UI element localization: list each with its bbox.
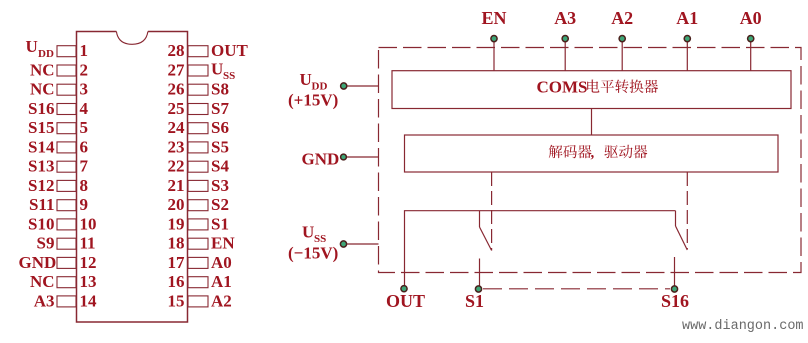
svg-text:A3: A3 bbox=[554, 8, 576, 28]
svg-text:(+15V): (+15V) bbox=[288, 91, 338, 110]
pin 16 box bbox=[188, 277, 208, 288]
svg-text:A0: A0 bbox=[740, 8, 762, 28]
svg-text:COMS: COMS bbox=[537, 78, 588, 97]
svg-text:12: 12 bbox=[80, 253, 97, 272]
pin 20 box bbox=[188, 200, 208, 211]
svg-text:15: 15 bbox=[168, 291, 185, 310]
wire EN input stub bbox=[493, 40, 495, 71]
svg-text:U: U bbox=[300, 70, 312, 89]
svg-text:19: 19 bbox=[168, 214, 185, 233]
svg-text:S10: S10 bbox=[28, 214, 54, 233]
svg-text:11: 11 bbox=[80, 234, 96, 253]
node EN terminal dot bbox=[491, 36, 497, 42]
pin 11 box bbox=[57, 238, 76, 249]
pin 9 box bbox=[57, 200, 76, 211]
svg-text:S1: S1 bbox=[465, 291, 484, 311]
wire GND lead bbox=[344, 156, 379, 158]
svg-text:27: 27 bbox=[168, 60, 186, 79]
wire S16 control (dashed) bbox=[686, 172, 688, 249]
svg-text:16: 16 bbox=[168, 272, 185, 291]
svg-text:S9: S9 bbox=[37, 234, 55, 253]
svg-text:9: 9 bbox=[80, 195, 89, 214]
node S16 terminal dot bbox=[671, 286, 677, 292]
svg-text:S3: S3 bbox=[211, 176, 229, 195]
pin 7 box bbox=[57, 161, 76, 172]
pin 2 box bbox=[57, 65, 76, 76]
node USS terminal dot bbox=[340, 241, 346, 247]
pin 10 box bbox=[57, 219, 76, 230]
pin 8 box bbox=[57, 180, 76, 191]
svg-text:14: 14 bbox=[80, 291, 98, 310]
wire UDD lead bbox=[344, 85, 379, 87]
svg-text:S5: S5 bbox=[211, 137, 229, 156]
pin 6 box bbox=[57, 142, 76, 153]
node UDD terminal dot bbox=[341, 83, 347, 89]
chip boundary dashed box bbox=[379, 48, 802, 273]
svg-text:S16: S16 bbox=[28, 99, 54, 118]
pin 14 box bbox=[57, 296, 76, 307]
svg-text:OUT: OUT bbox=[211, 41, 249, 60]
svg-text:24: 24 bbox=[168, 118, 186, 137]
pin 26 box bbox=[188, 84, 208, 95]
pin 28 box bbox=[188, 46, 208, 57]
svg-text:GND: GND bbox=[302, 150, 340, 169]
svg-text:A1: A1 bbox=[211, 272, 232, 291]
svg-text:A2: A2 bbox=[611, 8, 633, 28]
switch S16 arm bbox=[676, 226, 688, 250]
switch S1 contact wire bbox=[479, 259, 481, 289]
svg-text:,: , bbox=[591, 145, 595, 161]
svg-text:S16: S16 bbox=[661, 291, 689, 311]
label 解码器 bbox=[549, 145, 592, 159]
wire S1 to S16 ellipsis (dashed) bbox=[483, 288, 670, 290]
pin 25 box bbox=[188, 104, 208, 115]
svg-text:S1: S1 bbox=[211, 214, 229, 233]
pin 17 box bbox=[188, 257, 208, 268]
node A3 terminal dot bbox=[562, 36, 568, 42]
label 电平转换器 bbox=[587, 80, 658, 94]
node S1 terminal dot bbox=[475, 286, 481, 292]
svg-text:18: 18 bbox=[168, 234, 185, 253]
svg-text:25: 25 bbox=[168, 99, 185, 118]
svg-text:S13: S13 bbox=[28, 157, 54, 176]
svg-text:S2: S2 bbox=[211, 195, 229, 214]
svg-text:3: 3 bbox=[80, 80, 89, 99]
wire S1 control (dashed) bbox=[491, 172, 493, 251]
pin 24 box bbox=[188, 123, 208, 134]
svg-text:OUT: OUT bbox=[386, 291, 425, 311]
svg-text:S11: S11 bbox=[29, 195, 55, 214]
svg-text:U: U bbox=[26, 37, 38, 56]
wire A2 input stub bbox=[621, 40, 623, 71]
svg-text:21: 21 bbox=[168, 176, 185, 195]
pin 12 box bbox=[57, 257, 76, 268]
svg-text:13: 13 bbox=[80, 272, 97, 291]
svg-text:U: U bbox=[302, 223, 314, 242]
switch S16 contact wire bbox=[674, 257, 676, 288]
IC U1 DIP-28 body bbox=[77, 32, 188, 323]
svg-text:10: 10 bbox=[80, 214, 97, 233]
wire A3 input stub bbox=[564, 40, 566, 71]
svg-text:S7: S7 bbox=[211, 99, 229, 118]
svg-text:A1: A1 bbox=[676, 8, 698, 28]
wire A0 input stub bbox=[750, 40, 752, 71]
svg-text:S8: S8 bbox=[211, 80, 229, 99]
pin 15 box bbox=[188, 296, 208, 307]
svg-text:EN: EN bbox=[481, 8, 506, 28]
svg-text:17: 17 bbox=[168, 253, 186, 272]
pin 1 box bbox=[57, 46, 76, 57]
svg-text:NC: NC bbox=[30, 80, 55, 99]
svg-text:www.diangon.com: www.diangon.com bbox=[682, 319, 804, 334]
pin 13 box bbox=[57, 277, 76, 288]
IC U1 pin-1 index notch bbox=[116, 32, 147, 45]
node OUT terminal dot bbox=[401, 286, 407, 292]
node A0 terminal dot bbox=[748, 36, 754, 42]
svg-text:S12: S12 bbox=[28, 176, 54, 195]
svg-text:4: 4 bbox=[80, 99, 89, 118]
svg-text:22: 22 bbox=[168, 157, 185, 176]
block: decoder/driver bbox=[405, 135, 779, 172]
svg-text:GND: GND bbox=[19, 253, 57, 272]
svg-text:S4: S4 bbox=[211, 157, 229, 176]
pin 19 box bbox=[188, 219, 208, 230]
wire: level-shifter to decoder bbox=[591, 109, 593, 136]
switch S1 pole drop bbox=[479, 211, 481, 227]
pin 21 box bbox=[188, 180, 208, 191]
svg-text:S15: S15 bbox=[28, 118, 54, 137]
node A1 terminal dot bbox=[684, 36, 690, 42]
pin 3 box bbox=[57, 84, 76, 95]
svg-text:A2: A2 bbox=[211, 291, 232, 310]
wire OUT common bus bbox=[405, 211, 676, 288]
pin 22 box bbox=[188, 161, 208, 172]
svg-text:EN: EN bbox=[211, 234, 235, 253]
svg-text:A0: A0 bbox=[211, 253, 232, 272]
svg-text:1: 1 bbox=[80, 41, 89, 60]
svg-text:8: 8 bbox=[80, 176, 89, 195]
pin 27 box bbox=[188, 65, 208, 76]
svg-text:DD: DD bbox=[38, 48, 54, 60]
svg-text:NC: NC bbox=[30, 272, 55, 291]
pin 18 box bbox=[188, 238, 208, 249]
wire USS lead bbox=[344, 243, 379, 245]
switch S16 pole drop bbox=[675, 211, 677, 226]
svg-text:6: 6 bbox=[80, 137, 89, 156]
wire A1 input stub bbox=[686, 40, 688, 71]
svg-text:2: 2 bbox=[80, 60, 89, 79]
svg-text:26: 26 bbox=[168, 80, 185, 99]
svg-text:28: 28 bbox=[168, 41, 185, 60]
svg-text:20: 20 bbox=[168, 195, 185, 214]
svg-text:S14: S14 bbox=[28, 137, 55, 156]
svg-text:NC: NC bbox=[30, 60, 55, 79]
node GND terminal dot bbox=[341, 154, 347, 160]
svg-text:U: U bbox=[211, 60, 223, 79]
node A2 terminal dot bbox=[619, 36, 625, 42]
switch S1 arm bbox=[480, 227, 492, 251]
label 驱动器 bbox=[604, 145, 647, 158]
svg-text:S6: S6 bbox=[211, 118, 229, 137]
svg-text:23: 23 bbox=[168, 137, 185, 156]
pin 4 box bbox=[57, 104, 76, 115]
svg-text:5: 5 bbox=[80, 118, 89, 137]
svg-text:A3: A3 bbox=[34, 291, 55, 310]
block: CMOS level shifter bbox=[392, 71, 791, 109]
svg-text:7: 7 bbox=[80, 157, 89, 176]
pin 5 box bbox=[57, 123, 76, 134]
pin 23 box bbox=[188, 142, 208, 153]
svg-text:(−15V): (−15V) bbox=[288, 244, 338, 263]
